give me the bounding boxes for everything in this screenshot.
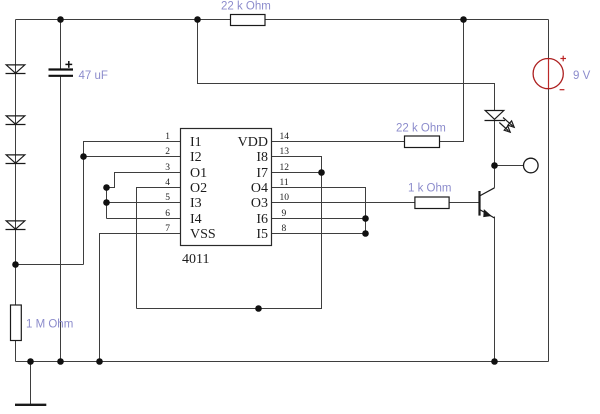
svg-text:22 k Ohm: 22 k Ohm — [221, 1, 271, 13]
transistor Q1 emitter — [480, 210, 495, 219]
svg-text:13: 13 — [280, 147, 290, 157]
wire 22k resistor to top rail — [440, 20, 464, 142]
svg-text:9: 9 — [282, 209, 287, 219]
node pin3 junction — [103, 184, 110, 191]
wire vertical x=82.5 to pin2 — [83, 157, 85, 265]
node top right — [460, 16, 467, 23]
node pin5 junction — [103, 199, 110, 206]
svg-text:14: 14 — [280, 132, 290, 142]
node bottom loop — [255, 305, 262, 312]
battery minus — [560, 89, 565, 91]
node emitter bottom — [491, 358, 498, 365]
svg-text:10: 10 — [280, 193, 290, 203]
wire pin 1 — [84, 142, 181, 157]
wire pin 9 — [272, 218, 366, 220]
svg-text:9 V: 9 V — [573, 70, 591, 82]
svg-text:6: 6 — [165, 209, 170, 219]
transistor Q1 base bar — [478, 191, 480, 216]
svg-text:O1: O1 — [190, 166, 207, 181]
svg-text:3: 3 — [165, 163, 170, 173]
diode D2 — [6, 116, 26, 125]
wire collector node to switch terminal — [495, 165, 524, 167]
wire pin 4 down to bottom loop — [137, 188, 181, 309]
IC U1 4011 body — [181, 129, 272, 246]
wire LED cathode to collector — [494, 121, 496, 188]
wire left column (diode chain) — [15, 20, 17, 306]
svg-text:22 k Ohm: 22 k Ohm — [396, 123, 446, 135]
wire capacitor bottom lead — [60, 77, 62, 362]
node top cap — [57, 16, 64, 23]
wire pin 3 — [107, 173, 181, 188]
svg-text:7: 7 — [165, 224, 170, 234]
svg-text:8: 8 — [282, 224, 287, 234]
svg-text:47 uF: 47 uF — [79, 70, 108, 82]
svg-text:O3: O3 — [251, 196, 268, 211]
svg-text:1 M Ohm: 1 M Ohm — [26, 319, 73, 331]
node top tap — [194, 16, 201, 23]
battery V1 9V circle — [533, 59, 563, 89]
capacitor C1 47uF — [49, 70, 74, 76]
node diode chain — [12, 261, 19, 268]
transistor emitter arrow — [484, 210, 491, 217]
svg-text:I2: I2 — [190, 150, 202, 165]
wire pin 12 — [272, 172, 322, 174]
svg-text:VDD: VDD — [238, 135, 268, 150]
node ground — [27, 358, 34, 365]
wire junction vertical x=106.5 — [106, 188, 108, 219]
svg-text:I6: I6 — [256, 212, 268, 227]
resistor R3 1k — [415, 197, 449, 209]
svg-text:I8: I8 — [256, 150, 268, 165]
LED D5 — [485, 111, 506, 121]
switch terminal circle — [524, 158, 539, 173]
wire pin 11 down to pins 9,8 — [272, 188, 366, 234]
wire capacitor top lead — [60, 20, 62, 69]
node pin12 — [318, 169, 325, 176]
wire 9V source to bottom rail — [548, 89, 550, 362]
diode D3 — [6, 155, 26, 164]
svg-text:5: 5 — [165, 193, 170, 203]
svg-text:O4: O4 — [251, 181, 268, 196]
diode D4 — [6, 221, 26, 230]
diode D1 — [6, 65, 26, 74]
svg-text:I3: I3 — [190, 196, 202, 211]
ground — [15, 404, 46, 406]
node collector — [491, 162, 498, 169]
svg-text:I5: I5 — [256, 227, 268, 242]
node pin9 — [362, 215, 369, 222]
svg-text:2: 2 — [165, 147, 170, 157]
svg-text:1 k Ohm: 1 k Ohm — [408, 183, 451, 195]
battery V1 9V red lead segment — [548, 59, 550, 89]
node pin8 — [362, 230, 369, 237]
svg-text:1: 1 — [165, 132, 170, 142]
node pins 1-2 — [80, 153, 87, 160]
wire bottom loop y=308.5 up to pin 13 — [137, 157, 322, 309]
svg-text:I7: I7 — [256, 166, 268, 181]
svg-text:4: 4 — [165, 178, 170, 188]
resistor R1 22k (top) — [231, 15, 266, 26]
wire pin 5 — [107, 202, 181, 204]
wire 1M resistor bottom lead — [15, 341, 17, 362]
resistor R2 22k (right) — [405, 136, 440, 148]
wire pin 10 to 1k resistor — [272, 202, 415, 204]
wire right edge to 9V source — [548, 20, 550, 59]
wire top rail tap down to LED branch — [198, 20, 495, 111]
svg-text:O2: O2 — [190, 181, 207, 196]
wire pin 6 — [107, 218, 181, 220]
svg-text:I4: I4 — [190, 212, 202, 227]
wire pin 8 — [272, 233, 366, 235]
wire ground stub — [30, 362, 32, 405]
svg-text:4011: 4011 — [182, 252, 209, 267]
wire top rail — [16, 19, 549, 21]
node cap bottom — [57, 358, 64, 365]
wire pin 14 to 22k resistor — [272, 141, 406, 143]
node vss bottom — [96, 358, 103, 365]
svg-text:VSS: VSS — [190, 227, 216, 242]
wire node A horizontal y=264.5 — [16, 264, 84, 266]
wire bottom rail — [16, 361, 549, 363]
wire pin 7 VSS to ground rail — [100, 234, 181, 362]
transistor Q1 collector — [480, 188, 495, 196]
capacitor plus sign — [65, 61, 72, 68]
svg-text:12: 12 — [280, 163, 290, 173]
wire emitter to bottom rail — [494, 217, 496, 362]
battery plus — [560, 56, 566, 62]
svg-text:I1: I1 — [190, 135, 202, 150]
svg-text:11: 11 — [280, 178, 289, 188]
wire pin 2 — [84, 156, 181, 158]
wire 1k resistor to base — [449, 202, 479, 204]
LED light arrows — [499, 118, 514, 133]
resistor R4 1M — [11, 305, 22, 341]
